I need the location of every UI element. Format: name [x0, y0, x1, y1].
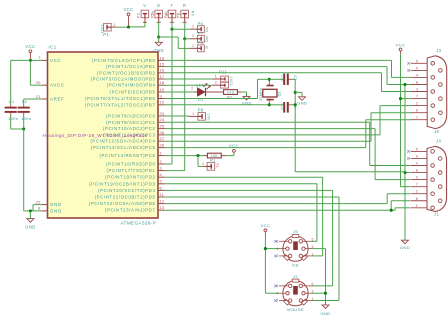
svg-text:J0: J0	[434, 129, 439, 134]
svg-text:(PCINT8/ADC0)PC0: (PCINT8/ADC0)PC0	[106, 114, 156, 119]
svg-text:C1: C1	[9, 99, 15, 104]
VCC symbol top	[123, 7, 133, 26]
svg-text:VCC: VCC	[396, 42, 406, 47]
svg-text:2: 2	[215, 81, 217, 85]
svg-text:100n: 100n	[8, 116, 19, 121]
svg-text:1: 1	[215, 74, 217, 78]
svg-text:8: 8	[416, 169, 418, 173]
svg-text:T: T	[171, 3, 174, 8]
wire GND net J3 J4 pin8	[403, 83, 410, 240]
wire PD7 to J4 pin6 pin1	[165, 201, 411, 212]
svg-text:5: 5	[312, 238, 314, 242]
wire PB3 to P11	[165, 78, 213, 80]
connector J2 PS2 mouse	[274, 274, 314, 312]
svg-text:(PCINT17/TXD)PD1: (PCINT17/TXD)PD1	[106, 168, 155, 173]
resistor R2 470	[219, 90, 241, 100]
svg-text:6: 6	[160, 185, 163, 190]
svg-text:(PCINT0/CLKO/ICP1)PB0: (PCINT0/CLKO/ICP1)PB0	[92, 58, 155, 63]
svg-text:24: 24	[160, 117, 165, 122]
connector J5 PS2 keyboard	[274, 229, 314, 267]
resistor R1 10K	[203, 153, 225, 162]
wire VCC to KB and MOUSE pin4	[264, 236, 279, 293]
svg-text:(PCINT20/XCK/T0)PD4: (PCINT20/XCK/T0)PD4	[98, 188, 155, 193]
wire GND pin22	[33, 205, 41, 211]
svg-text:VCC: VCC	[50, 58, 61, 63]
connector P7 header	[190, 31, 209, 43]
IC1 left pin 8 GND	[38, 206, 62, 214]
svg-text:1X01: 1X01	[100, 24, 104, 33]
svg-text:1X01: 1X01	[206, 113, 210, 123]
IC1 right pin 18 PB4	[107, 80, 165, 88]
svg-text:(PCINT19/OC2B/INT1)PD3: (PCINT19/OC2B/INT1)PD3	[89, 181, 156, 186]
svg-text:IC1: IC1	[49, 45, 57, 50]
wire VCC net to J3 pin7 and J4 pin7	[399, 54, 411, 186]
svg-text:27: 27	[160, 136, 165, 141]
VCC symbol left	[25, 44, 35, 60]
svg-text:9: 9	[416, 154, 418, 158]
IC1 left pin 22 GND	[36, 199, 62, 207]
wire PD2 to KB data	[165, 177, 323, 256]
IC1 right pin 11 PD5	[95, 192, 165, 200]
wire PC2 to J4 pin3	[165, 129, 411, 180]
IC1 left pin 21 AREF	[36, 94, 65, 102]
svg-text:P11: P11	[219, 69, 228, 74]
svg-text:(PCINT12/SDA/ADC4)PC4: (PCINT12/SDA/ADC4)PC4	[90, 139, 155, 144]
svg-text:P7: P7	[198, 31, 204, 36]
svg-text:D1: D1	[198, 97, 204, 102]
wire KB gnd chain	[312, 249, 327, 305]
wire PD3 to KB clock	[165, 184, 317, 242]
svg-text:21: 21	[36, 94, 41, 99]
svg-text:(PCINT14/RESET)PC6: (PCINT14/RESET)PC6	[99, 153, 155, 158]
IC1 right pin 16 PB2	[97, 68, 165, 76]
IC1 right pin 12 PD6	[89, 199, 165, 207]
svg-text:15: 15	[160, 62, 165, 67]
svg-text:7: 7	[416, 183, 418, 187]
svg-text:2: 2	[191, 86, 193, 90]
connector P3 header pin G	[151, 3, 169, 22]
svg-text:V: V	[143, 3, 146, 8]
svg-text:1: 1	[312, 252, 314, 256]
svg-text:C2: C2	[22, 99, 28, 104]
svg-text:9: 9	[416, 66, 418, 70]
wire PB2 to J3 pin3	[165, 73, 412, 92]
svg-text:1: 1	[202, 162, 204, 166]
svg-text:16MHz: 16MHz	[259, 88, 263, 101]
IC1 right pin 28 PC5	[91, 143, 165, 151]
svg-text:14: 14	[160, 55, 165, 60]
wire VCC left branch to C1	[11, 60, 31, 104]
svg-text:5: 5	[312, 282, 314, 286]
svg-text:5: 5	[160, 179, 163, 184]
svg-text:P8: P8	[198, 40, 204, 45]
wire VCC down to AVCC pin20	[30, 60, 41, 85]
connector J3 DB9	[407, 48, 446, 134]
svg-text:(PCINT13/SCL/ADC5)PC5: (PCINT13/SCL/ADC5)PC5	[91, 145, 156, 150]
svg-text:(PCINT10/ADC2)PC2: (PCINT10/ADC2)PC2	[103, 126, 156, 131]
svg-text:8: 8	[38, 206, 41, 211]
svg-text:GND: GND	[400, 245, 410, 250]
svg-text:RO: RO	[205, 37, 209, 43]
svg-text:28: 28	[160, 143, 165, 148]
IC1 attribute text Housings_DIP	[43, 133, 148, 138]
wire PD6 to J4 pin2	[165, 194, 411, 204]
IC1 right pin 14 PB0	[92, 55, 165, 63]
ground symbol at MOUSE	[320, 305, 330, 316]
svg-text:P9: P9	[198, 107, 204, 112]
wire PB0 to J3 pin4	[165, 60, 412, 77]
wire crystal top to C3	[269, 78, 283, 80]
IC1 right pin 26 PC3	[103, 130, 165, 138]
wire PC0 to P9	[165, 115, 189, 117]
svg-text:1: 1	[192, 112, 194, 116]
wire R2 to ground	[242, 92, 247, 96]
wire PC4 to J3 pin6	[165, 113, 412, 142]
svg-text:KB: KB	[292, 263, 298, 268]
svg-text:1: 1	[160, 151, 163, 156]
IC1 right pin 2 PD0	[106, 159, 165, 167]
svg-text:22p: 22p	[280, 75, 284, 82]
VCC symbol at KB	[261, 223, 271, 236]
svg-text:20: 20	[36, 80, 41, 85]
svg-text:(PCINT4/MISO)PB4: (PCINT4/MISO)PB4	[107, 83, 156, 88]
ground symbol top	[153, 42, 164, 53]
svg-text:S1: S1	[215, 163, 219, 168]
svg-text:J4: J4	[436, 139, 441, 144]
wire GND branch to P8	[159, 37, 190, 48]
svg-text:7: 7	[416, 95, 418, 99]
svg-text:P6: P6	[198, 21, 204, 26]
svg-text:4: 4	[276, 291, 278, 295]
svg-text:GND: GND	[153, 48, 164, 53]
connector P6 header	[190, 21, 209, 33]
svg-text:(PCINT6/XTAL1/TOSC1)PB6: (PCINT6/XTAL1/TOSC1)PB6	[85, 96, 156, 101]
svg-text:2: 2	[416, 102, 418, 106]
svg-text:13: 13	[160, 205, 165, 210]
svg-text:5: 5	[416, 59, 418, 63]
connector P8 header	[190, 40, 209, 52]
svg-text:8: 8	[416, 81, 418, 85]
svg-text:2: 2	[416, 190, 418, 194]
wire G header to ground	[157, 22, 160, 42]
svg-text:(PCINT21/OC0B/T1)PD5: (PCINT21/OC0B/T1)PD5	[95, 195, 156, 200]
IC1 right pin 9 PB6	[85, 93, 165, 101]
wire C1 bottom to C2 bottom junction	[11, 116, 26, 131]
wire PC1 to J4 pin4	[165, 122, 411, 165]
svg-text:18: 18	[160, 80, 165, 85]
svg-text:9: 9	[160, 93, 163, 98]
wire PC5 to J3 pin1	[165, 120, 412, 148]
VCC symbol at R1	[229, 144, 239, 153]
wire PC3 to J3 pin2	[165, 106, 412, 135]
IC1 right pin 24 PC1	[106, 117, 165, 125]
wire PB1 to J3 pin8	[165, 67, 412, 85]
svg-text:(PCINT2/OC1B/SS)PB2: (PCINT2/OC1B/SS)PB2	[97, 70, 155, 75]
IC1 right pin 27 PC4	[90, 136, 165, 144]
svg-text:P4: P4	[164, 13, 168, 18]
svg-text:6: 6	[416, 197, 418, 201]
wire reset to S1	[198, 156, 203, 167]
svg-text:GND: GND	[25, 224, 36, 229]
svg-text:1: 1	[114, 23, 116, 27]
junction GND left	[29, 209, 32, 212]
IC1 right pin 6 PD4	[98, 185, 164, 193]
wire caps to GND rail	[24, 129, 42, 211]
IC1 right pin 13 PD7	[105, 205, 165, 213]
connector P9	[188, 107, 210, 123]
svg-text:11: 11	[160, 192, 165, 197]
svg-text:3: 3	[312, 245, 314, 249]
svg-text:10: 10	[160, 100, 165, 105]
wire T header to P6 and RXD	[165, 22, 190, 164]
svg-text:Housings_DIP:DIP-28_W7.62mm_Lo: Housings_DIP:DIP-28_W7.62mm_LongPads	[43, 133, 148, 138]
svg-text:P2: P2	[137, 13, 141, 18]
svg-text:5: 5	[416, 147, 418, 151]
svg-text:GND: GND	[50, 202, 62, 207]
svg-text:4: 4	[276, 247, 278, 251]
svg-text:4: 4	[416, 162, 418, 166]
svg-text:100n: 100n	[21, 116, 32, 121]
svg-text:22: 22	[36, 199, 41, 204]
IC1 right pin 10 PB7	[85, 100, 165, 108]
VCC symbol at J3	[396, 42, 406, 54]
svg-text:R: R	[183, 3, 186, 8]
svg-text:GND: GND	[320, 311, 330, 316]
wire GND horizontal from crystal	[295, 171, 405, 174]
svg-text:3: 3	[312, 290, 314, 294]
IC1 left pin 20 AVCC	[36, 80, 65, 88]
svg-text:1: 1	[312, 297, 314, 301]
IC1 left pin 7 VCC	[38, 55, 61, 63]
IC1 right pin 3 PD1	[106, 166, 164, 174]
svg-text:6: 6	[416, 109, 418, 113]
svg-text:P5: P5	[177, 13, 181, 18]
svg-text:MOUSE: MOUSE	[287, 307, 304, 312]
svg-text:3: 3	[160, 166, 163, 171]
capacitor C4 22p	[280, 102, 297, 113]
wire AREF pin21 to C2	[24, 99, 42, 104]
connector S1 reset header	[202, 162, 219, 170]
svg-text:23: 23	[160, 111, 165, 116]
wire P1 to V header rail	[117, 22, 145, 28]
svg-text:22p: 22p	[280, 103, 284, 110]
svg-text:AVCC: AVCC	[50, 83, 65, 88]
svg-text:J1: J1	[434, 212, 439, 217]
wire R1 to VCC	[225, 152, 234, 155]
capacitor C2 100n	[18, 99, 32, 121]
svg-text:7: 7	[38, 55, 41, 60]
svg-text:RX: RX	[190, 11, 194, 17]
connector P5 header pin R	[177, 3, 195, 22]
svg-text:GND: GND	[297, 101, 307, 106]
svg-text:17: 17	[160, 74, 165, 79]
svg-text:4: 4	[160, 172, 163, 177]
wire C3 C4 to ground net	[292, 79, 297, 171]
svg-text:(PCINT9/ADC1)PC1: (PCINT9/ADC1)PC1	[106, 120, 156, 125]
svg-text:J2: J2	[293, 274, 298, 279]
capacitor C3 22p	[280, 74, 297, 85]
ground symbol at R2	[242, 96, 252, 105]
wire crystal bottom to C4	[269, 104, 283, 106]
svg-text:1: 1	[416, 204, 418, 208]
svg-text:1: 1	[416, 116, 418, 120]
svg-text:(PCINT3/OC2A/MOSI)PB3: (PCINT3/OC2A/MOSI)PB3	[91, 77, 156, 82]
svg-text:16: 16	[160, 68, 165, 73]
svg-text:3: 3	[416, 88, 418, 92]
capacitor C1 100n	[5, 99, 19, 121]
connector P1	[100, 23, 117, 37]
wire PC6 reset net	[165, 154, 204, 157]
svg-text:VCC: VCC	[261, 223, 271, 228]
IC1 right pin 23 PC0	[106, 111, 165, 119]
wire PD4 to MOUSE clock	[165, 190, 333, 286]
svg-text:J3: J3	[436, 48, 441, 53]
svg-text:26: 26	[160, 130, 165, 135]
svg-text:G: G	[157, 3, 161, 8]
IC1 right pin 1 PC6	[99, 151, 164, 159]
wire XTAL2 pin10 to crystal bottom	[165, 104, 270, 106]
wire LED to R2	[206, 91, 224, 93]
svg-text:VCC: VCC	[123, 7, 133, 12]
svg-text:2: 2	[160, 159, 163, 164]
crystal Q1 16MHz	[259, 78, 282, 107]
IC1 right pin 25 PC2	[103, 124, 165, 132]
svg-text:TO: TO	[205, 27, 209, 32]
wire XTAL1 pin9 to crystal top	[165, 79, 270, 98]
svg-text:Q1: Q1	[277, 91, 281, 97]
IC IC1 ATMEGA328-P body	[48, 45, 159, 226]
IC1 right pin 17 PB3	[91, 74, 165, 82]
ground symbol at crystal	[295, 92, 307, 105]
IC1 right pin 4 PD2	[105, 172, 164, 180]
wire VCC to pin7 + junction	[29, 59, 41, 62]
svg-text:4: 4	[416, 73, 418, 77]
wire PD5 to MOUSE data	[165, 197, 340, 301]
svg-text:ATMEGA328-P: ATMEGA328-P	[121, 221, 157, 226]
wire R header to P7 and TXD	[165, 22, 190, 170]
svg-text:1: 1	[192, 44, 194, 48]
ground symbol at J4	[400, 240, 410, 250]
svg-text:1: 1	[192, 34, 194, 38]
svg-text:AREF: AREF	[50, 97, 65, 102]
IC1 right pin 15 PB1	[106, 62, 165, 70]
svg-text:(PCINT23/AIN1)PD7: (PCINT23/AIN1)PD7	[105, 208, 156, 213]
svg-text:(PCINT7/XTAL2/TOSC2)PB7: (PCINT7/XTAL2/TOSC2)PB7	[85, 102, 156, 107]
IC1 right pin 5 PD3	[89, 179, 165, 187]
svg-text:VCC: VCC	[25, 44, 35, 49]
svg-text:P3: P3	[151, 13, 155, 18]
LED D1	[196, 82, 210, 102]
svg-text:(PCINT1/OC1A)PB1: (PCINT1/OC1A)PB1	[106, 64, 156, 69]
connector P11	[212, 69, 233, 88]
svg-text:(PCINT5/SCK)PB5: (PCINT5/SCK)PB5	[110, 90, 156, 95]
connector P4 header pin T	[164, 3, 182, 22]
svg-text:1: 1	[192, 25, 194, 29]
svg-text:19: 19	[160, 87, 165, 92]
connector P2 header pin V	[137, 3, 155, 22]
connector J4 DB9	[407, 139, 446, 217]
svg-text:(PCINT18/INT0)PD2: (PCINT18/INT0)PD2	[105, 175, 155, 180]
IC1 right pin 19 PB5	[110, 87, 165, 95]
ground symbol left	[25, 211, 36, 229]
svg-text:GND: GND	[50, 208, 62, 213]
svg-text:(PCINT22/OC0A/AIN0)PD6: (PCINT22/OC0A/AIN0)PD6	[89, 201, 156, 206]
svg-text:1X02: 1X02	[229, 76, 233, 86]
svg-text:12: 12	[160, 199, 165, 204]
svg-text:(PCINT16/RXD)PD0: (PCINT16/RXD)PD0	[106, 162, 156, 167]
wire PB5 to LED	[165, 86, 198, 92]
svg-text:J5: J5	[293, 229, 298, 234]
wire PB4 to P11	[165, 84, 213, 86]
svg-text:R1: R1	[210, 158, 216, 163]
svg-text:25: 25	[160, 124, 165, 129]
svg-text:G: G	[205, 46, 209, 49]
svg-text:3: 3	[416, 176, 418, 180]
